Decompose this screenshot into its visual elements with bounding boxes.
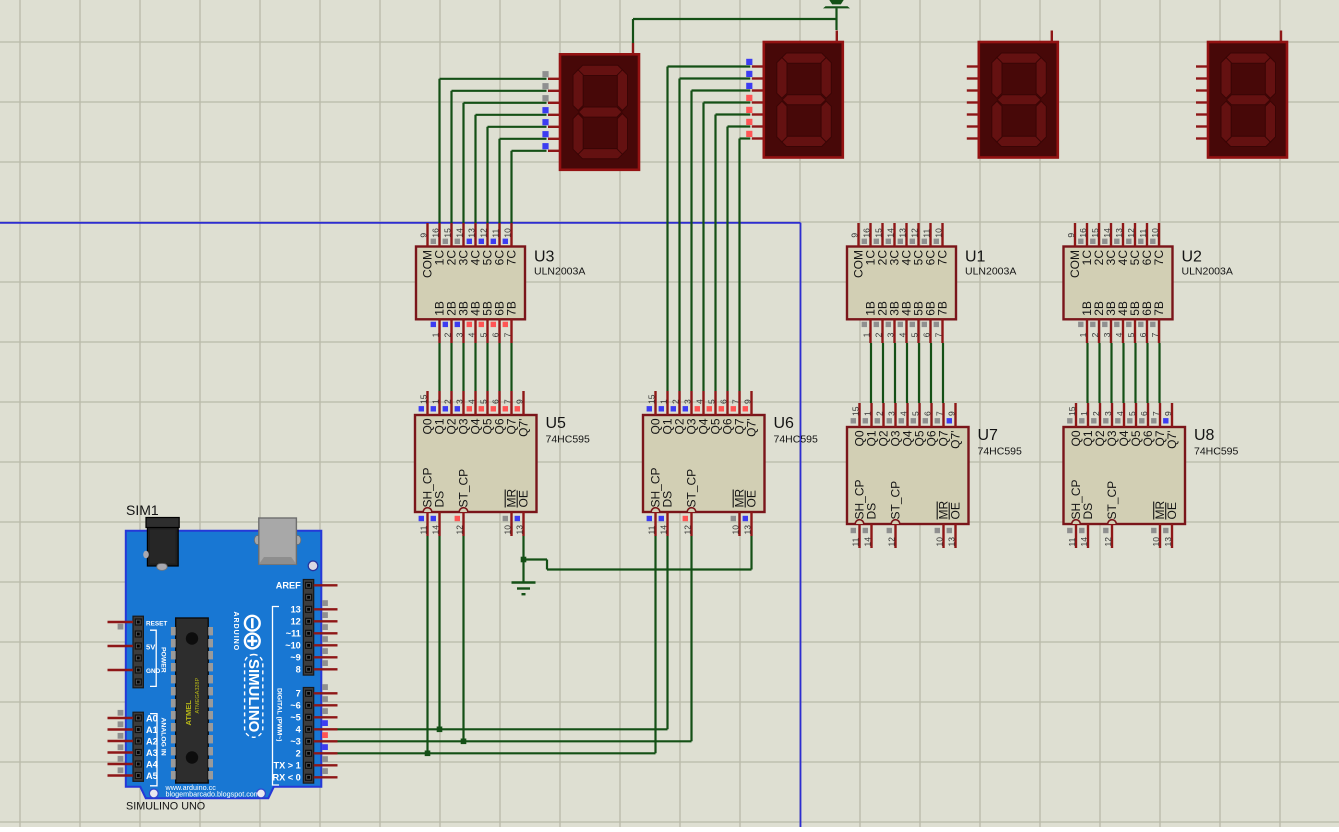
svg-text:6: 6 [921,332,931,337]
svg-text:74HC595: 74HC595 [978,446,1023,458]
svg-text:15: 15 [873,228,883,238]
arduino board SIM1 outline [126,531,321,799]
svg-text:4: 4 [1114,332,1124,337]
svg-text:13: 13 [514,525,524,535]
arduino header right top [303,580,337,676]
svg-text:10: 10 [730,525,740,535]
svg-text:4: 4 [1115,411,1125,416]
svg-text:POWER: POWER [159,647,166,673]
svg-text:1: 1 [658,399,668,404]
74hc595 U7 label [978,427,1023,458]
svg-text:74HC595: 74HC595 [546,434,591,446]
svg-text:OE: OE [949,502,963,519]
svg-text:12: 12 [1103,537,1113,547]
svg-text:A5: A5 [146,771,158,781]
svg-text:6: 6 [490,332,500,337]
svg-text:6: 6 [1139,411,1149,416]
svg-text:11: 11 [490,229,500,238]
svg-text:7: 7 [934,411,944,416]
wire bus DS2 to U6 [668,67,751,392]
svg-text:74HC595: 74HC595 [774,434,819,446]
wire bus U2 to U8 [1088,343,1160,403]
digital bracket [273,607,283,786]
svg-text:1: 1 [1079,411,1089,416]
svg-text:13: 13 [742,525,752,535]
svg-text:4: 4 [466,332,476,337]
svg-text:13: 13 [1114,228,1124,238]
svg-text:6: 6 [490,399,500,404]
74hc595 U6 body [643,415,765,512]
svg-text:11: 11 [921,229,931,238]
74hc595 U5 body [415,415,537,512]
svg-text:U5: U5 [546,415,567,432]
74hc595 U8 label [1194,427,1239,458]
svg-text:3: 3 [1103,411,1113,416]
svg-text:DS: DS [433,491,447,508]
svg-text:2: 2 [1091,411,1101,416]
wire bus DS1 to U3 [440,79,547,223]
ground bottom [512,583,536,595]
arduino right top labels [276,581,301,675]
svg-text:DS: DS [865,503,879,520]
svg-text:U6: U6 [774,415,795,432]
svg-text:11: 11 [1138,229,1148,238]
svg-text:TX > 1: TX > 1 [273,761,300,771]
svg-text:ULN2003A: ULN2003A [1182,266,1233,278]
svg-text:15: 15 [646,394,656,404]
svg-text:RESET: RESET [146,620,167,627]
svg-text:SIMULINO UNO: SIMULINO UNO [126,801,205,813]
svg-text:5: 5 [478,399,488,404]
svg-text:ATMEGA328P: ATMEGA328P [195,678,201,714]
svg-text:1: 1 [862,411,872,416]
svg-text:Q7': Q7' [745,419,759,437]
svg-text:3: 3 [1102,332,1112,337]
svg-text:7: 7 [730,399,740,404]
svg-text:74HC595: 74HC595 [1194,446,1239,458]
svg-text:12: 12 [1126,228,1136,238]
svg-text:12: 12 [454,525,464,535]
svg-text:9: 9 [849,233,859,238]
svg-text:~10: ~10 [285,641,301,651]
svg-text:ST_CP: ST_CP [889,481,903,520]
svg-text:12: 12 [291,617,301,627]
7-segment display DS3 pins [967,31,1052,139]
svg-text:13: 13 [946,537,956,547]
uln2003a U2 body [1064,247,1173,320]
svg-text:OE: OE [1165,502,1179,519]
usb connector [254,518,300,564]
uln2003a U1 label [965,249,1016,278]
74hc595 U6 top pins Q0-Q7 [646,391,758,437]
svg-text:4: 4 [296,725,302,735]
svg-text:15: 15 [850,406,860,416]
svg-text:5: 5 [1126,332,1136,337]
board url texts [165,783,260,799]
74hc595 U5 bottom pins [418,467,530,536]
uln2003a U3 label [534,249,585,278]
svg-text:7: 7 [296,689,301,699]
svg-text:10: 10 [934,537,944,547]
74hc595 U5 label [546,415,591,446]
svg-text:Q7': Q7' [1165,431,1179,449]
svg-text:12: 12 [682,525,692,535]
svg-text:Q7': Q7' [949,431,963,449]
svg-text:5: 5 [909,332,919,337]
svg-text:7B: 7B [505,301,519,316]
svg-text:10: 10 [933,228,943,238]
uln2003a U2 bottom pins 1-7 [1078,301,1166,343]
wire DS2 COM to ground [835,8,837,30]
svg-text:6: 6 [718,399,728,404]
wire U5 OE to ground node [524,536,752,570]
wire D4 to DS lines [338,536,668,729]
svg-text:3: 3 [682,399,692,404]
svg-text:DIGITAL (PWM~): DIGITAL (PWM~) [275,688,282,742]
svg-text:ST_CP: ST_CP [1105,481,1119,520]
uln2003a U1 body [847,247,956,320]
svg-text:7C: 7C [505,250,519,266]
svg-text:1: 1 [430,399,440,404]
analog bracket [150,714,166,786]
svg-text:4: 4 [898,411,908,416]
node SH_CP junction [425,751,431,757]
uln2003a U3 bottom pins 1-7 [430,301,518,343]
svg-text:2: 2 [1090,332,1100,337]
svg-text:RX < 0: RX < 0 [272,773,300,783]
svg-text:15: 15 [1067,406,1077,416]
74hc595 U8 bottom pins [1067,479,1179,548]
svg-text:3: 3 [885,332,895,337]
svg-text:10: 10 [502,228,512,238]
svg-text:3: 3 [454,399,464,404]
svg-text:2: 2 [442,332,452,337]
svg-text:SIMULINO: SIMULINO [245,659,262,733]
wire D2 to SH_CP lines [338,536,656,753]
svg-text:Q7': Q7' [517,419,531,437]
svg-text:ATMEL: ATMEL [184,700,193,726]
svg-text:ARDUINO: ARDUINO [232,612,239,652]
svg-text:GND: GND [146,668,161,675]
svg-text:4: 4 [694,399,704,404]
7-segment display DS2 pins [746,31,837,139]
svg-text:14: 14 [430,525,440,535]
svg-text:OE: OE [745,490,759,507]
svg-text:10: 10 [1150,228,1160,238]
svg-text:14: 14 [1102,228,1112,238]
arduino header left analog [108,710,144,781]
uln2003a U2 top pins 9,16-10 [1066,223,1166,278]
label SIM1 [126,502,159,518]
svg-text:8: 8 [296,665,301,675]
svg-text:9: 9 [1066,233,1076,238]
wire bus U1 to U7 [871,343,943,403]
svg-text:3: 3 [454,332,464,337]
atmel atmega328p chip [171,618,213,783]
svg-text:7C: 7C [936,250,950,266]
7-segment display DS3 [979,42,1058,158]
svg-text:16: 16 [430,228,440,238]
wire DS1 COM to ground [633,19,837,43]
svg-text:U3: U3 [534,249,555,266]
svg-text:16: 16 [861,228,871,238]
svg-text:9: 9 [946,411,956,416]
74hc595 U8 body [1064,427,1186,524]
svg-text:15: 15 [418,394,428,404]
svg-text:7B: 7B [1152,301,1166,316]
svg-text:13: 13 [897,228,907,238]
wire node to ground [522,560,524,582]
svg-text:14: 14 [454,228,464,238]
svg-text:2: 2 [873,332,883,337]
svg-text:2: 2 [296,749,301,759]
svg-text:6: 6 [922,411,932,416]
wire D3 to ST_CP lines [338,536,692,741]
svg-text:DS: DS [661,491,675,508]
svg-text:2: 2 [874,411,884,416]
svg-text:OE: OE [517,490,531,507]
svg-text:12: 12 [478,228,488,238]
svg-text:14: 14 [862,537,872,547]
svg-text:4: 4 [466,399,476,404]
svg-text:A0: A0 [146,713,158,723]
svg-text:1: 1 [1078,332,1088,337]
svg-text:DS: DS [1081,503,1095,520]
74hc595 U5 top pins Q0-Q7 [418,391,530,437]
svg-text:2: 2 [670,399,680,404]
svg-text:blogembarcado.blogspot.com: blogembarcado.blogspot.com [166,790,260,799]
svg-text:ST_CP: ST_CP [685,469,699,508]
svg-text:9: 9 [418,233,428,238]
svg-text:7: 7 [1150,332,1160,337]
svg-text:7B: 7B [936,301,950,316]
svg-text:13: 13 [466,228,476,238]
svg-text:7C: 7C [1152,250,1166,266]
simulino silk text [245,655,263,738]
svg-text:~11: ~11 [286,629,301,639]
power bracket [150,630,166,686]
ground top [823,0,850,8]
svg-text:A2: A2 [146,736,158,746]
svg-text:4: 4 [897,332,907,337]
sheet border line [0,223,801,827]
7-segment display DS1 pins [542,43,633,151]
7-segment display DS1 [560,54,639,170]
svg-text:1: 1 [861,332,871,337]
svg-text:7: 7 [502,399,512,404]
svg-text:12: 12 [886,537,896,547]
svg-text:U1: U1 [965,249,986,266]
svg-text:ULN2003A: ULN2003A [534,266,585,278]
svg-text:~3: ~3 [290,737,300,747]
svg-text:16: 16 [1078,228,1088,238]
svg-text:~6: ~6 [290,701,300,711]
svg-text:5: 5 [478,332,488,337]
svg-text:ST_CP: ST_CP [457,469,471,508]
svg-text:11: 11 [418,525,428,534]
74hc595 U7 body [847,427,969,524]
svg-text:14: 14 [1079,537,1089,547]
74hc595 U6 bottom pins [646,467,758,536]
svg-text:7: 7 [933,332,943,337]
svg-text:15: 15 [1090,228,1100,238]
svg-text:ANALOG IN: ANALOG IN [159,718,166,756]
uln2003a U1 top pins 9,16-10 [849,223,949,278]
svg-text:A3: A3 [146,748,158,758]
uln2003a U3 top pins 9,16-10 [418,223,518,278]
svg-text:6: 6 [1138,332,1148,337]
svg-text:11: 11 [1067,537,1077,546]
arduino right bottom labels [272,689,301,783]
7-segment display DS2 [764,42,843,158]
svg-text:13: 13 [1163,537,1173,547]
svg-text:15: 15 [442,228,452,238]
svg-text:U7: U7 [978,427,999,444]
svg-text:5: 5 [706,399,716,404]
analog labels [146,713,159,781]
svg-text:10: 10 [1151,537,1161,547]
svg-text:5: 5 [1127,411,1137,416]
svg-text:ULN2003A: ULN2003A [965,266,1016,278]
svg-text:3: 3 [886,411,896,416]
svg-text:~5: ~5 [290,713,300,723]
svg-text:7: 7 [1151,411,1161,416]
74hc595 U8 top pins Q0-Q7 [1067,403,1179,449]
svg-text:AREF: AREF [276,581,301,591]
svg-text:9: 9 [742,399,752,404]
svg-text:~9: ~9 [290,653,300,663]
svg-text:7: 7 [502,332,512,337]
power labels [146,620,167,675]
svg-text:13: 13 [291,605,301,615]
uln2003a U2 label [1182,249,1233,278]
svg-text:5: 5 [910,411,920,416]
7-segment display DS4 pins [1196,31,1281,139]
svg-text:9: 9 [1163,411,1173,416]
74hc595 U6 label [774,415,819,446]
svg-text:11: 11 [646,525,656,534]
mounting holes [149,561,317,798]
node DS junction [437,727,443,733]
power jack [143,518,179,571]
svg-text:SIM1: SIM1 [126,502,159,518]
arduino header left power [108,616,144,688]
node ST_CP junction [461,739,467,745]
label SIMULINO UNO [126,801,205,813]
svg-text:14: 14 [658,525,668,535]
uln2003a U1 bottom pins 1-7 [861,301,949,343]
arduino logo [232,612,260,652]
svg-text:U2: U2 [1182,249,1203,266]
svg-text:2: 2 [442,399,452,404]
svg-text:9: 9 [514,399,524,404]
7-segment display DS4 [1208,42,1287,158]
74hc595 U7 top pins Q0-Q7 [850,403,962,449]
svg-text:11: 11 [850,537,860,546]
wire bus U3 to U5 [440,343,512,391]
uln2003a U3 body [416,247,525,320]
svg-text:10: 10 [502,525,512,535]
arduino header right bottom [303,684,337,783]
node OE junction [521,557,527,563]
svg-text:5V: 5V [146,642,156,651]
svg-text:14: 14 [885,228,895,238]
svg-text:A1: A1 [146,725,158,735]
svg-text:12: 12 [909,228,919,238]
svg-text:1: 1 [430,332,440,337]
svg-text:U8: U8 [1194,427,1215,444]
74hc595 U7 bottom pins [850,479,962,548]
